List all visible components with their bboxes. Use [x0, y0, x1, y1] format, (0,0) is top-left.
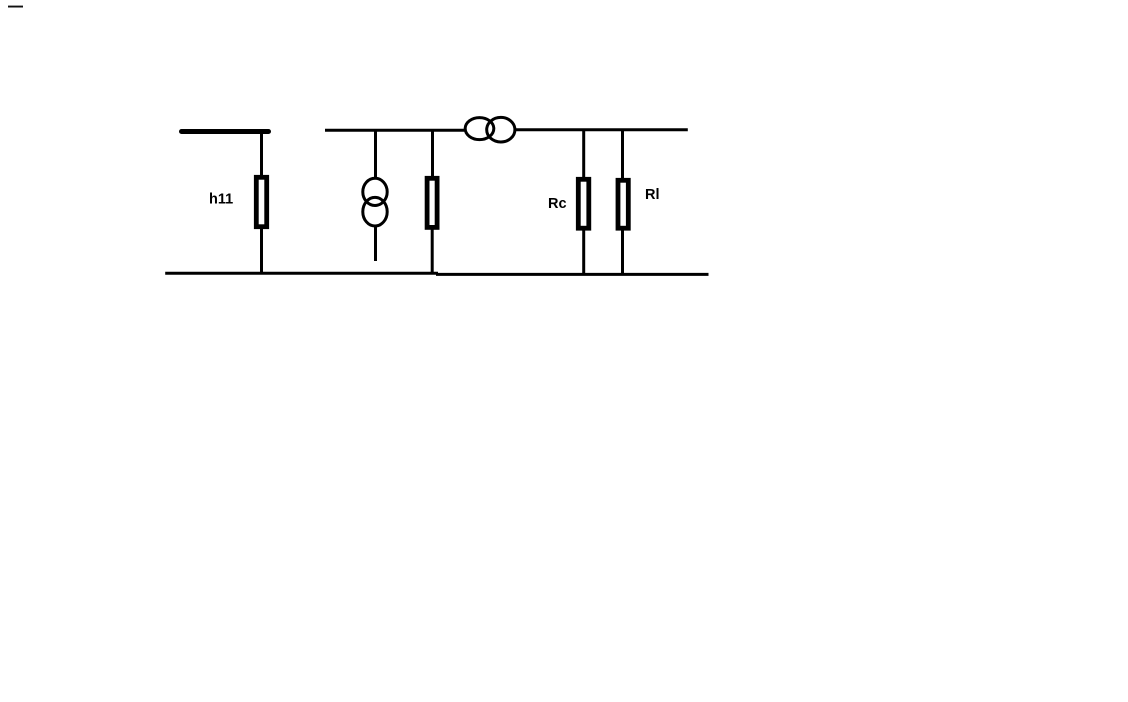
stray dash mark	[8, 6, 23, 8]
svg-text:h11: h11	[209, 192, 233, 208]
svg-text:Rc: Rc	[548, 196, 567, 212]
current source top circle	[363, 178, 387, 205]
label Rc	[548, 196, 567, 212]
wire: bottom rail left segment	[165, 272, 438, 275]
wire: top rail right segment (transformer to output)	[516, 128, 688, 131]
wire: resistor h11 to bottom rail	[260, 228, 263, 274]
transformer left circle	[465, 118, 494, 140]
wire: terminal bar to resistor h11	[260, 131, 263, 177]
resistor R2 (unlabeled)	[427, 178, 437, 227]
resistor Rl	[618, 180, 628, 228]
wire: top rail to current source	[374, 131, 377, 178]
transformer right circle	[487, 117, 515, 142]
resistor Rc	[578, 179, 589, 228]
wire: bottom rail right segment	[436, 273, 709, 276]
wire: top rail left segment (to transformer)	[325, 129, 465, 132]
wire: current source stub (open end)	[374, 227, 377, 262]
wire: top rail to resistor Rl	[621, 129, 624, 179]
resistor h11	[256, 177, 266, 226]
wire: resistor Rl to bottom rail	[621, 230, 624, 275]
label Rl	[645, 187, 660, 203]
current source bottom circle	[363, 197, 387, 226]
wire: top rail to resistor R2	[431, 130, 434, 177]
label h11	[209, 192, 233, 208]
input terminal bar (thick node line)	[182, 129, 269, 134]
svg-text:Rl: Rl	[645, 187, 660, 203]
wire: top rail to resistor Rc	[582, 129, 585, 178]
wire: resistor R2 to bottom rail	[431, 229, 434, 275]
wire: resistor Rc to bottom rail	[582, 230, 585, 275]
